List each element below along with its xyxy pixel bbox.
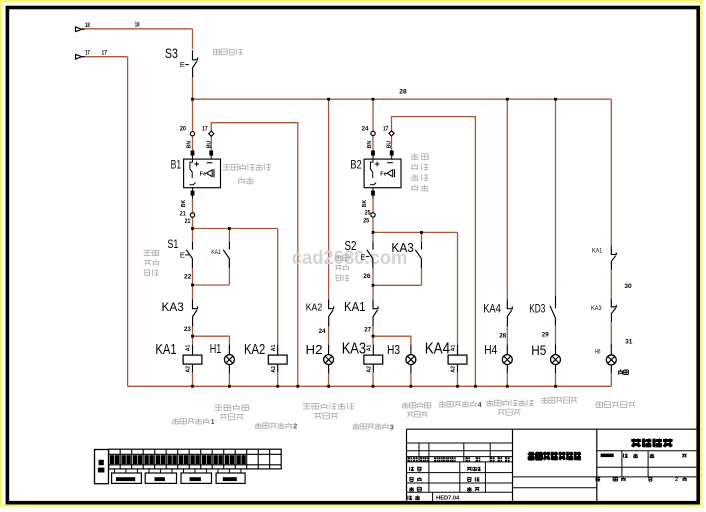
svg-text:4: 4: [478, 400, 482, 409]
svg-text:17: 17: [85, 50, 90, 57]
wire KA4 contact drop: [506, 99, 508, 299]
wire node 21 to S1 row: [192, 217, 194, 228]
wire KD3 contact to H5: [555, 326, 557, 345]
svg-text:18: 18: [135, 22, 140, 29]
bus junction KA2 coil: [276, 385, 279, 388]
bus junction riser B2: [474, 385, 477, 388]
svg-text:2: 2: [675, 477, 678, 483]
wire KA3 coil to bus: [372, 372, 374, 386]
wire S3 bottom to node 20: [192, 78, 194, 100]
relay coil KA2: [268, 355, 287, 364]
wire B1 circle to pin: [192, 136, 194, 151]
wire left return rail 17: [127, 57, 129, 387]
svg-text:A1: A1: [186, 344, 192, 351]
svg-text:E: E: [360, 252, 365, 261]
wire B2 17 circle to pin: [391, 136, 393, 151]
svg-text:S3: S3: [165, 45, 178, 61]
wire source arrow 18 horizontal: [82, 28, 193, 30]
wire S1 top: [192, 229, 194, 243]
lamp H3: [406, 355, 416, 365]
wire S3 drop: [192, 29, 194, 49]
svg-text:E: E: [180, 60, 185, 69]
wire H2 to bus: [328, 373, 330, 386]
svg-text:KA1: KA1: [211, 249, 221, 256]
svg-text:25: 25: [365, 209, 371, 216]
wire B2 bottom to node 25: [372, 199, 374, 213]
contact KA3 left: [193, 299, 198, 309]
wire S1 return row: [193, 284, 230, 286]
title block small texts left: [408, 457, 413, 461]
bus junction KA3 coil: [372, 385, 375, 388]
wire right column top: [610, 99, 612, 246]
svg-text:A2: A2: [186, 366, 192, 373]
label relay4 gray: [439, 401, 446, 407]
svg-text:KA2: KA2: [244, 342, 265, 358]
svg-text:A2: A2: [451, 366, 457, 373]
wire B1 17 lead riser: [211, 123, 297, 387]
wire source arrow 17 horizontal: [82, 56, 128, 58]
wire KA3 coil top: [372, 336, 374, 344]
pushbutton S2: [372, 242, 374, 250]
svg-text:25: 25: [363, 218, 369, 225]
svg-text:KA4: KA4: [483, 302, 501, 316]
svg-text:2: 2: [293, 422, 297, 431]
terminal strip relay boxes: [112, 473, 142, 483]
wire KA1 aux top: [228, 229, 230, 243]
wire KA2 contact to H2: [328, 325, 330, 344]
wire bottom bus: [128, 385, 612, 387]
terminal circle B1 a: [190, 132, 194, 136]
relay coil KA3: [364, 355, 383, 364]
off-page arrow 17: [76, 54, 82, 59]
svg-text:21: 21: [185, 218, 191, 225]
wire KA3 contact top: [192, 285, 194, 299]
svg-text:B2: B2: [350, 159, 362, 172]
wire KA3 aux bottom: [421, 268, 423, 285]
svg-text:KA3: KA3: [591, 305, 602, 312]
svg-text:22: 22: [184, 273, 192, 280]
svg-text:KA4: KA4: [425, 340, 451, 357]
svg-text:S2: S2: [345, 238, 357, 253]
contact KD3: [555, 296, 557, 308]
svg-text:BU: BU: [207, 141, 213, 149]
label S1 gray: [144, 250, 151, 255]
svg-text:30: 30: [624, 283, 632, 290]
svg-text:KA2: KA2: [306, 303, 323, 314]
svg-text:KA3: KA3: [342, 340, 366, 357]
wire H3 to bus: [410, 373, 412, 386]
node 26 junction: [372, 284, 375, 287]
svg-text:29: 29: [542, 331, 549, 338]
svg-text:Fe: Fe: [380, 172, 386, 178]
wire S1 row horizontal: [193, 228, 278, 230]
bus junction H3: [410, 385, 413, 388]
wire KA1 aux bottom: [228, 268, 230, 285]
svg-text:KA3: KA3: [391, 240, 414, 255]
svg-text:H4: H4: [484, 342, 497, 357]
lamp H1: [224, 355, 234, 365]
label H6 note: [618, 369, 623, 374]
bus junction H5: [554, 385, 557, 388]
wire KA3 contact to node 23: [192, 325, 194, 336]
top bus junction KD3: [554, 98, 557, 101]
contact KA1 aux: [228, 242, 230, 250]
svg-text:BK: BK: [362, 199, 368, 207]
svg-text:H3: H3: [387, 342, 400, 357]
wire node 25 to S2 row: [372, 217, 374, 232]
title block grid: [407, 428, 697, 430]
wire KA3 aux top: [421, 232, 423, 242]
svg-text:24: 24: [362, 125, 369, 132]
terminal circle B2 a: [371, 131, 375, 135]
label relay2 gray: [255, 422, 262, 428]
svg-text:H6: H6: [595, 348, 601, 355]
wire right column mid: [610, 270, 612, 299]
svg-text:BU: BU: [386, 141, 392, 149]
svg-text:BK: BK: [181, 199, 187, 207]
svg-text:23: 23: [184, 326, 191, 333]
svg-text:21: 21: [180, 211, 186, 218]
label H1 gray: [215, 405, 222, 410]
node 23 junction: [191, 335, 194, 338]
svg-text:18: 18: [85, 22, 90, 29]
terminal strip wire ticks: [113, 469, 115, 473]
wire H1 branch: [193, 336, 230, 344]
svg-text:KA1: KA1: [592, 248, 603, 255]
lamp H2: [324, 355, 334, 365]
wire H3 branch: [373, 336, 411, 344]
bus junction KA4 coil: [456, 385, 459, 388]
wire KA2 contact drop: [328, 99, 330, 299]
label S2 gray: [335, 254, 342, 260]
wire KA2 coil to bus: [277, 372, 279, 386]
wire KA1 coil to bus: [192, 372, 194, 386]
pushbutton S1: [192, 242, 194, 250]
node 20 junction: [191, 98, 194, 101]
svg-text:KA1: KA1: [344, 299, 366, 314]
svg-text:KA1: KA1: [155, 342, 176, 358]
svg-text:3: 3: [390, 422, 394, 431]
wire B2 top lead: [372, 99, 374, 131]
svg-text:H2: H2: [306, 342, 323, 357]
svg-text:HED7.04: HED7.04: [436, 496, 459, 502]
off-page arrow 18: [76, 27, 82, 32]
lamp H6: [606, 355, 616, 365]
wire H4 to bus: [506, 373, 508, 386]
label stop button gray: [213, 49, 219, 54]
svg-text:KD3: KD3: [529, 302, 546, 316]
terminal circle B2 b: [389, 131, 394, 136]
wire H6 to bus: [610, 373, 612, 386]
svg-text:S1: S1: [167, 239, 178, 251]
svg-text:Fe: Fe: [200, 172, 206, 178]
wire S2 top: [372, 232, 374, 242]
svg-text:BN: BN: [186, 141, 192, 149]
top bus junction B2: [372, 98, 375, 101]
node 27 junction: [372, 335, 375, 338]
svg-text:27: 27: [364, 327, 371, 334]
svg-text:17: 17: [383, 125, 389, 132]
wire B1 17 circle to pin: [210, 136, 212, 151]
label H3 gray: [402, 402, 409, 408]
wire S2 bottom: [372, 268, 374, 285]
svg-text:1: 1: [211, 417, 215, 426]
contact KA3 right: [611, 299, 616, 307]
wire KD3 contact drop: [555, 99, 557, 296]
node 22 junction: [191, 284, 194, 287]
pushbutton S3: [193, 50, 198, 60]
svg-text:17: 17: [102, 49, 108, 56]
wire B2 17 lead riser: [392, 117, 476, 387]
wire KA2 coil feed: [277, 229, 279, 345]
terminal circle node 21: [190, 213, 194, 217]
wire S1 bottom: [192, 268, 194, 285]
label H6 gray: [596, 402, 603, 407]
wire KA4 coil to bus: [457, 372, 459, 386]
svg-text:28: 28: [499, 332, 506, 339]
wire H1 to bus: [228, 373, 230, 386]
contact KA1 right: [611, 246, 616, 254]
relay coil KA4: [448, 355, 467, 364]
proximity sensor B1: [184, 159, 221, 188]
terminal strip connector block: [95, 450, 109, 484]
bus junction KA1: [191, 385, 194, 388]
label H5 gray: [541, 397, 548, 403]
node 25 junction: [372, 231, 375, 234]
lamp H4: [502, 355, 512, 365]
label relay1 gray: [172, 418, 179, 424]
wire B1 top lead: [192, 99, 194, 131]
svg-text:H5: H5: [531, 343, 546, 359]
label H4 gray: [486, 400, 493, 406]
wire KA1 contact top: [372, 285, 374, 299]
svg-text:A1: A1: [271, 344, 277, 351]
wire S2 row horizontal: [373, 231, 458, 233]
lamp H5: [551, 355, 561, 365]
title block drawing name: [528, 452, 535, 461]
svg-text:31: 31: [625, 339, 633, 346]
wire right column to H6: [610, 322, 612, 346]
svg-text:A1: A1: [451, 344, 457, 351]
title block small texts right: [601, 454, 614, 458]
terminal strip grid: [109, 449, 282, 469]
wire B1 bottom to node 21: [192, 199, 194, 213]
terminal circle B1 b: [209, 131, 214, 136]
svg-text:28: 28: [399, 89, 407, 96]
S1 row junction KA1 aux: [228, 227, 231, 230]
svg-text:B1: B1: [171, 159, 182, 172]
proximity sensor B2: [364, 159, 401, 188]
label B2 position gray: [411, 153, 419, 160]
contact KA1 interlock: [373, 299, 378, 309]
svg-text:26: 26: [363, 273, 371, 280]
svg-text:A2: A2: [271, 366, 277, 373]
wire S2 return row: [373, 284, 422, 286]
svg-text:H1: H1: [210, 341, 222, 356]
top bus junction KA4: [506, 98, 509, 101]
wire B2 circle to pin: [372, 136, 374, 151]
wire KA4 coil feed: [457, 232, 459, 344]
svg-text:A1: A1: [366, 344, 372, 351]
relay coil KA1: [183, 355, 202, 364]
bus junction H4: [506, 385, 509, 388]
svg-text:KA3: KA3: [162, 300, 184, 314]
contact KA3 aux: [421, 242, 423, 250]
title block sheet name: [631, 439, 641, 448]
wire H5 to bus: [555, 373, 557, 386]
node 21 junction: [191, 227, 194, 230]
svg-text:24: 24: [319, 328, 326, 335]
bus junction H1: [228, 385, 231, 388]
label B1 position gray: [223, 164, 231, 170]
bus junction H2: [327, 385, 330, 388]
top bus junction KA2: [327, 98, 330, 101]
svg-text:17: 17: [202, 125, 208, 132]
svg-text:20: 20: [180, 125, 187, 132]
contact KA2: [329, 299, 334, 309]
wire KA4 contact to H4: [506, 325, 508, 344]
wire top bus node 28: [193, 98, 612, 100]
label relay3 gray: [352, 423, 359, 429]
contact KA4: [507, 299, 512, 309]
S2 row junction KA3 aux: [420, 231, 423, 234]
svg-text:E: E: [180, 250, 185, 259]
label H2 gray: [303, 404, 310, 409]
svg-text:A2: A2: [366, 366, 372, 373]
terminal circle node 25: [371, 213, 375, 217]
wire KA1 coil top: [192, 336, 194, 344]
bus junction riser B1: [296, 385, 299, 388]
wire KA1 contact to node 27: [372, 325, 374, 336]
svg-text:BN: BN: [367, 141, 373, 149]
